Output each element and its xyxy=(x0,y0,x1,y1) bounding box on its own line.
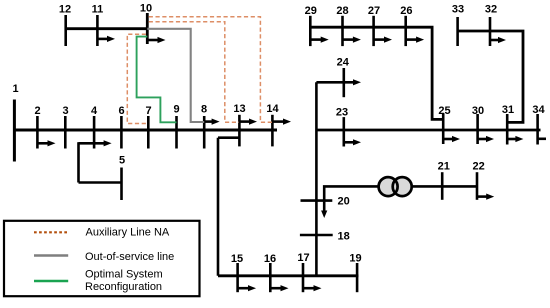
svg-text:4: 4 xyxy=(91,105,98,117)
auxiliary line NA 10-14 (dashed) xyxy=(149,17,272,122)
load stub bus 34 xyxy=(538,138,546,141)
svg-text:3: 3 xyxy=(62,105,68,117)
wire 13 to feeder3 xyxy=(218,138,239,276)
wire branch 4 to 5 xyxy=(79,142,122,182)
wire feederA buses 29-26 to 25 xyxy=(310,27,443,119)
load arrow bus 11 xyxy=(97,36,115,42)
node bus 30 xyxy=(472,105,484,144)
node bus 31 xyxy=(502,104,514,145)
load arrow bus 32 xyxy=(490,37,506,43)
node bus 23 xyxy=(336,106,348,146)
svg-text:5: 5 xyxy=(119,155,125,167)
svg-text:7: 7 xyxy=(145,105,151,117)
node bus 22 xyxy=(472,161,484,200)
wire feederC buses 33-32 to 31 xyxy=(458,31,523,122)
svg-text:11: 11 xyxy=(92,4,104,16)
svg-text:19: 19 xyxy=(349,253,361,265)
node bus 29 xyxy=(305,5,317,46)
node bus 32 xyxy=(485,4,497,47)
node bus 18 xyxy=(300,231,350,243)
load arrow bus 2 xyxy=(37,140,55,146)
svg-text:31: 31 xyxy=(502,104,514,116)
load arrow bus 4 xyxy=(79,140,112,146)
load arrow bus 29 xyxy=(310,37,328,43)
svg-text:34: 34 xyxy=(532,104,545,116)
svg-text:17: 17 xyxy=(297,252,309,264)
wire branch 23 to 24 xyxy=(316,79,361,85)
svg-text:2: 2 xyxy=(34,105,40,117)
load arrow bus 14 xyxy=(272,119,291,125)
svg-text:28: 28 xyxy=(336,5,348,17)
node bus 8 xyxy=(201,104,207,149)
load arrow bus 26 xyxy=(406,37,424,43)
legend out-of-service sample xyxy=(34,251,174,263)
svg-text:18: 18 xyxy=(337,231,349,243)
wire branch 20 to transformer and 21-22 xyxy=(324,186,477,200)
node bus 20 xyxy=(301,196,350,208)
node bus 13 xyxy=(233,103,245,146)
node bus 34 xyxy=(532,104,545,145)
load arrow bus 20 (down) xyxy=(321,201,327,218)
node bus 9 xyxy=(173,104,179,149)
node bus 28 xyxy=(336,5,348,46)
wire trunk 24-20-18 xyxy=(315,82,318,275)
svg-text:Out-of-service line: Out-of-service line xyxy=(85,251,174,263)
optimal reconfiguration line 10-9 (green) xyxy=(137,37,177,123)
svg-text:6: 6 xyxy=(118,105,124,117)
load arrow bus 27 xyxy=(374,37,392,43)
svg-text:32: 32 xyxy=(485,4,497,16)
svg-text:23: 23 xyxy=(336,106,348,118)
svg-text:15: 15 xyxy=(231,253,243,265)
load arrow bus 30 xyxy=(478,136,494,142)
node bus 16 xyxy=(264,253,276,292)
svg-text:27: 27 xyxy=(368,5,380,17)
transformer 20-21 xyxy=(379,177,412,196)
node bus 24 xyxy=(337,57,350,98)
svg-text:10: 10 xyxy=(140,3,152,15)
svg-text:22: 22 xyxy=(472,161,484,173)
node bus 6 xyxy=(118,105,124,149)
svg-text:25: 25 xyxy=(438,105,450,117)
node bus 7 xyxy=(145,105,151,149)
legend optimal reconfiguration sample xyxy=(34,268,163,293)
legend box xyxy=(4,221,200,296)
svg-text:30: 30 xyxy=(472,105,484,117)
load arrow bus 17 xyxy=(303,285,322,291)
load arrow bus 31 xyxy=(507,136,523,142)
load arrow bus 23 xyxy=(344,139,361,145)
svg-text:29: 29 xyxy=(305,5,317,17)
load arrow bus 28 xyxy=(343,37,361,43)
load arrow bus 10 xyxy=(147,37,165,43)
load arrow bus 13 xyxy=(239,119,257,125)
node bus 3 xyxy=(62,105,68,149)
wire feederB buses 23-34 xyxy=(316,129,540,132)
node bus 17 xyxy=(297,252,309,292)
svg-text:9: 9 xyxy=(173,104,179,116)
auxiliary line NA 10-7 (dashed) xyxy=(127,34,148,123)
node bus 26 xyxy=(400,5,412,46)
load arrow bus 16 xyxy=(270,285,288,291)
svg-text:20: 20 xyxy=(337,196,349,208)
node bus 12 xyxy=(59,4,71,47)
svg-text:8: 8 xyxy=(201,104,207,116)
load arrow bus 25 xyxy=(443,136,460,142)
node bus 5 xyxy=(119,155,125,201)
auxiliary line NA 10-13 (dashed) xyxy=(149,22,239,123)
svg-text:Reconfiguration: Reconfiguration xyxy=(85,281,162,293)
svg-text:21: 21 xyxy=(438,161,450,173)
load arrow bus 8 xyxy=(204,119,219,125)
node bus 19 xyxy=(349,253,361,293)
wire feeder2 buses 12-10 xyxy=(66,27,148,30)
node bus 21 xyxy=(438,161,450,200)
node bus 2 xyxy=(34,105,40,149)
legend auxiliary line sample xyxy=(34,226,170,238)
load arrow bus 15 xyxy=(238,285,256,291)
load arrow bus 22 xyxy=(477,194,494,200)
node bus 15 xyxy=(231,253,243,292)
node bus 27 xyxy=(368,5,380,46)
svg-text:Auxiliary Line NA: Auxiliary Line NA xyxy=(86,226,170,238)
svg-text:33: 33 xyxy=(452,4,464,16)
svg-text:12: 12 xyxy=(59,4,71,16)
node bus 4 xyxy=(91,105,98,149)
node bus 33 xyxy=(452,4,464,47)
svg-text:Optimal System: Optimal System xyxy=(85,268,163,280)
svg-text:13: 13 xyxy=(233,103,245,115)
wire feeder3 buses 15-19 xyxy=(218,274,359,277)
svg-text:14: 14 xyxy=(266,103,279,115)
wire feeder1 buses 1-14 xyxy=(14,129,277,132)
svg-text:26: 26 xyxy=(400,5,412,17)
svg-text:1: 1 xyxy=(12,83,18,95)
node bus 11 xyxy=(92,4,104,47)
node bus 25 xyxy=(438,105,450,144)
node bus 14 xyxy=(266,103,279,146)
node bus 10 xyxy=(140,3,152,45)
node bus 1 xyxy=(12,83,18,162)
out-of-service line 10-8 (gray) xyxy=(147,29,204,122)
svg-text:16: 16 xyxy=(264,253,276,265)
svg-text:24: 24 xyxy=(337,57,350,69)
